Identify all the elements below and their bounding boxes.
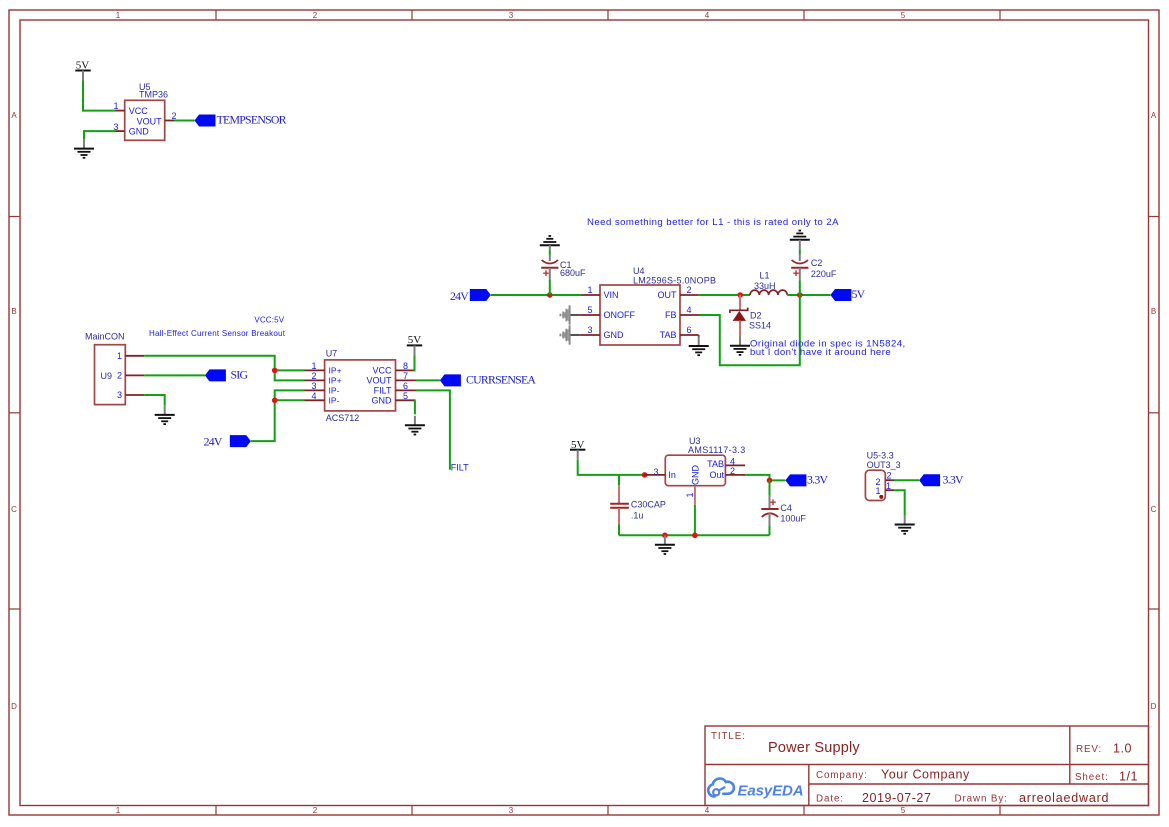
svg-text:A: A xyxy=(11,111,17,120)
svg-text:IP+: IP+ xyxy=(329,366,342,376)
ground left (GND U4) xyxy=(560,325,579,344)
svg-text:4: 4 xyxy=(705,11,710,20)
svg-text:TMP36: TMP36 xyxy=(139,90,168,100)
svg-text:Date:: Date: xyxy=(816,794,844,805)
junction node rail2 xyxy=(692,533,698,539)
inductor L1 xyxy=(750,271,787,296)
pin 5 U7 xyxy=(396,391,416,401)
pin 4 FB xyxy=(680,305,700,315)
svg-text:IP+: IP+ xyxy=(329,376,342,386)
title block xyxy=(705,726,1149,806)
svg-text:SS14: SS14 xyxy=(749,320,771,330)
junction node D2 xyxy=(737,292,743,298)
svg-text:Power Supply: Power Supply xyxy=(768,740,860,756)
svg-text:ACS712: ACS712 xyxy=(326,413,360,423)
pin 2 U7 xyxy=(305,371,325,381)
ground left (ONOFF) xyxy=(560,305,579,324)
svg-text:8: 8 xyxy=(403,361,408,371)
svg-text:5V: 5V xyxy=(852,287,866,301)
wire pin1 to ground xyxy=(894,490,905,515)
svg-text:U9: U9 xyxy=(101,371,113,381)
junction node C2 xyxy=(797,292,803,298)
svg-text:1: 1 xyxy=(886,481,891,491)
svg-text:4: 4 xyxy=(311,391,316,401)
svg-text:1/1: 1/1 xyxy=(1119,769,1138,783)
comment text diode xyxy=(750,339,906,359)
svg-text:4: 4 xyxy=(705,806,710,815)
ground above C1 xyxy=(540,236,560,251)
svg-text:D: D xyxy=(11,702,17,711)
svg-text:TAB: TAB xyxy=(660,330,677,340)
junction node rail1 xyxy=(662,533,668,539)
svg-text:3: 3 xyxy=(587,325,592,335)
svg-text:1: 1 xyxy=(116,806,121,815)
svg-text:FILT: FILT xyxy=(451,463,469,473)
svg-text:TAB: TAB xyxy=(707,459,724,469)
junction node IP- xyxy=(272,398,278,404)
svg-text:C30CAP: C30CAP xyxy=(631,500,666,510)
svg-text:FB: FB xyxy=(665,310,677,320)
svg-text:1: 1 xyxy=(117,351,122,361)
pin 2 OUT xyxy=(680,285,699,295)
pin 1 U5 xyxy=(113,101,124,111)
junction node C1 xyxy=(547,292,553,298)
svg-text:33uH: 33uH xyxy=(754,281,776,291)
power flag 5V (U5) xyxy=(75,60,90,81)
svg-text:2: 2 xyxy=(117,371,122,381)
connector U9 MainCON xyxy=(85,332,125,405)
svg-text:5: 5 xyxy=(901,806,906,815)
svg-text:1.0: 1.0 xyxy=(1113,742,1132,756)
svg-text:GND: GND xyxy=(604,330,625,340)
wire L1 to 5V flag xyxy=(787,294,830,296)
wire 24V to VIN xyxy=(491,294,581,296)
svg-text:5V: 5V xyxy=(408,334,422,346)
svg-text:Drawn By:: Drawn By: xyxy=(955,794,1008,805)
svg-text:Your Company: Your Company xyxy=(881,767,970,781)
wire ground rail U3 xyxy=(619,534,770,536)
connector U5-3.3 OUT3_3 xyxy=(865,451,900,501)
junction node In xyxy=(642,472,648,478)
svg-text:VOUT: VOUT xyxy=(137,116,163,126)
svg-text:3: 3 xyxy=(113,122,118,132)
pin 3 U5 xyxy=(113,122,124,132)
svg-text:3.3V: 3.3V xyxy=(807,472,828,486)
svg-text:REV:: REV: xyxy=(1076,744,1102,755)
wire U9 pin2 to SIG xyxy=(144,374,205,376)
svg-text:L1: L1 xyxy=(760,271,770,281)
svg-text:Out: Out xyxy=(709,470,724,480)
svg-text:2: 2 xyxy=(886,471,891,481)
wire FILT xyxy=(416,390,450,469)
wire VOUT to CURRSENSEA xyxy=(416,379,440,381)
capacitor C2 xyxy=(791,250,837,295)
svg-text:CURRSENSEA: CURRSENSEA xyxy=(466,372,536,386)
capacitor C30CAP xyxy=(610,475,666,535)
svg-text:24V: 24V xyxy=(204,434,223,448)
svg-text:Hall-Effect Current Sensor Bre: Hall-Effect Current Sensor Breakout xyxy=(149,329,286,338)
pin 1 VIN xyxy=(581,285,600,295)
power flag 5V (U3) xyxy=(570,439,585,460)
junction node IP+ xyxy=(272,368,278,374)
svg-text:2: 2 xyxy=(311,371,316,381)
svg-text:arreolaedward: arreolaedward xyxy=(1019,791,1109,805)
pin 1 U9 xyxy=(125,355,144,357)
svg-text:3: 3 xyxy=(509,11,514,20)
svg-text:VCC: VCC xyxy=(129,106,149,116)
svg-text:5: 5 xyxy=(403,391,408,401)
svg-text:B: B xyxy=(11,307,16,316)
svg-text:LM2596S-5.0NOPB: LM2596S-5.0NOPB xyxy=(633,276,716,286)
svg-text:2019-07-27: 2019-07-27 xyxy=(862,791,931,805)
svg-text:GND: GND xyxy=(129,127,150,137)
svg-text:A: A xyxy=(1151,111,1157,120)
svg-text:.1u: .1u xyxy=(631,511,644,521)
svg-text:U4: U4 xyxy=(633,266,645,276)
svg-text:GND: GND xyxy=(691,465,701,486)
svg-text:100uF: 100uF xyxy=(780,514,806,524)
pin 3 GND xyxy=(580,325,600,335)
pin 3 U7 xyxy=(305,381,325,391)
svg-text:1: 1 xyxy=(113,101,118,111)
net flag 5V (output) xyxy=(830,287,865,301)
junction node Out xyxy=(767,478,773,484)
pin 6 U7 xyxy=(396,381,416,391)
ground above C2 xyxy=(790,231,810,250)
wire 24V to IP- xyxy=(251,390,305,441)
svg-text:VOUT: VOUT xyxy=(366,376,392,386)
capacitor C1 xyxy=(541,251,586,296)
ground (U7) xyxy=(405,416,425,435)
wire 5V to In xyxy=(578,460,645,475)
net flag TEMPSENSOR xyxy=(195,112,287,126)
svg-text:IP-: IP- xyxy=(329,386,340,396)
svg-text:U7: U7 xyxy=(326,348,338,358)
svg-text:In: In xyxy=(668,470,676,480)
pin 4 U7 xyxy=(305,391,325,401)
svg-text:6: 6 xyxy=(686,325,691,335)
svg-text:TITLE:: TITLE: xyxy=(711,731,746,742)
wire GND U3 to rail xyxy=(694,505,696,536)
ground (U9) xyxy=(155,405,175,424)
svg-text:ONOFF: ONOFF xyxy=(604,310,636,320)
svg-text:5: 5 xyxy=(587,305,592,315)
svg-text:OUT3_3: OUT3_3 xyxy=(867,460,901,470)
pin 2 U5 xyxy=(165,111,177,121)
svg-text:1: 1 xyxy=(685,492,695,497)
ground (D2) xyxy=(730,336,750,355)
pin 2 Out xyxy=(725,466,745,476)
svg-text:5: 5 xyxy=(901,11,906,20)
svg-text:OUT: OUT xyxy=(658,290,678,300)
svg-text:GND: GND xyxy=(372,396,393,406)
wire 5V to U5 VCC xyxy=(83,81,115,111)
wire Out to 3.3V xyxy=(745,475,785,481)
svg-text:IP-: IP- xyxy=(329,396,340,406)
svg-text:C2: C2 xyxy=(811,258,823,268)
svg-text:3.3V: 3.3V xyxy=(943,472,964,486)
svg-text:C4: C4 xyxy=(780,503,792,513)
power flag 5V (U7) xyxy=(407,334,422,355)
svg-text:220uF: 220uF xyxy=(811,269,837,279)
svg-text:VCC: VCC xyxy=(372,366,392,376)
IC U4 LM2596S box xyxy=(600,266,716,345)
wire 5V to VCC U7 xyxy=(415,355,416,370)
IC U3 AMS1117 box xyxy=(665,436,745,486)
svg-text:3: 3 xyxy=(509,806,514,815)
pin 4 TAB xyxy=(725,456,745,466)
svg-text:1: 1 xyxy=(587,285,592,295)
svg-text:VCC:5V: VCC:5V xyxy=(254,316,284,325)
wire FB feedback xyxy=(700,295,800,365)
svg-text:Need something better for L1 -: Need something better for L1 - this is r… xyxy=(587,217,839,228)
svg-text:C: C xyxy=(1151,505,1157,514)
pin 7 U7 xyxy=(396,371,416,381)
net flag 24V (lower) xyxy=(204,434,251,448)
wire pin2 to 3.3V xyxy=(894,479,919,481)
svg-text:4: 4 xyxy=(730,456,735,466)
svg-text:MainCON: MainCON xyxy=(85,332,125,342)
svg-text:EasyEDA: EasyEDA xyxy=(738,782,804,799)
net flag SIG xyxy=(205,367,249,381)
pin 3 U9 xyxy=(125,394,144,396)
net flag 24V (main) xyxy=(450,289,491,303)
wire GND U7 to ground xyxy=(414,400,417,414)
capacitor C4 xyxy=(761,480,806,535)
wire OUT to D2 junction xyxy=(699,294,750,296)
diode D2 SS14 xyxy=(730,295,771,336)
net flag 3.3V (OUT) xyxy=(919,472,964,486)
svg-text:VIN: VIN xyxy=(604,290,619,300)
svg-text:680uF: 680uF xyxy=(560,268,586,278)
svg-text:3: 3 xyxy=(653,467,658,477)
pin 2 (U5-3.3) xyxy=(885,471,894,481)
svg-text:7: 7 xyxy=(403,371,408,381)
svg-text:24V: 24V xyxy=(450,289,469,303)
svg-text:D: D xyxy=(1151,702,1157,711)
svg-text:6: 6 xyxy=(403,381,408,391)
pin 8 U7 xyxy=(396,361,416,371)
svg-text:1: 1 xyxy=(875,486,880,496)
ground (TAB) xyxy=(689,335,709,355)
svg-text:1: 1 xyxy=(116,11,121,20)
svg-text:AMS1117-3.3: AMS1117-3.3 xyxy=(688,445,746,455)
svg-text:D2: D2 xyxy=(750,311,762,321)
svg-text:C: C xyxy=(11,505,17,514)
wire U9 pin3 to ground xyxy=(144,395,165,405)
svg-text:2: 2 xyxy=(686,285,691,295)
EasyEDA logo xyxy=(708,779,803,800)
wire U5 GND to ground xyxy=(84,131,115,139)
svg-text:B: B xyxy=(1151,307,1156,316)
svg-text:SIG: SIG xyxy=(231,367,249,381)
pin 6 TAB xyxy=(680,325,699,335)
svg-text:2: 2 xyxy=(730,466,735,476)
svg-text:3: 3 xyxy=(117,390,122,400)
pin 5 ONOFF xyxy=(580,305,600,315)
pin 1 (U5-3.3) xyxy=(885,481,894,491)
svg-text:FILT: FILT xyxy=(374,386,392,396)
svg-text:2: 2 xyxy=(313,11,318,20)
ground (U5) xyxy=(74,139,94,158)
wire branch IP- pin4 xyxy=(275,399,305,401)
net flag 3.3V (U3) xyxy=(785,472,828,486)
wire U9 pin1 to IP+ xyxy=(144,356,304,381)
svg-text:4: 4 xyxy=(686,305,691,315)
svg-text:3: 3 xyxy=(311,381,316,391)
wire U5 VOUT to TEMPSENSOR xyxy=(174,120,195,122)
svg-text:TEMPSENSOR: TEMPSENSOR xyxy=(217,112,287,126)
svg-text:Company:: Company: xyxy=(816,770,868,781)
IC U7 ACS712 box xyxy=(325,348,396,422)
pin 1 U7 xyxy=(305,361,325,371)
net flag CURRSENSEA xyxy=(440,372,537,386)
pin 1 GND (U3) xyxy=(685,486,695,505)
svg-text:2: 2 xyxy=(313,806,318,815)
title block text xyxy=(711,731,1138,805)
svg-text:1: 1 xyxy=(311,361,316,371)
svg-text:Sheet:: Sheet: xyxy=(1075,772,1109,783)
IC U5 TMP36 box xyxy=(125,82,168,140)
ground (U5-3.3) xyxy=(895,515,915,534)
pin 3 In xyxy=(645,467,666,477)
svg-text:but I don't have it around her: but I don't have it around here xyxy=(750,347,891,358)
ground (U3 rail) xyxy=(655,535,675,554)
wire branch IP+ pin1 xyxy=(275,369,305,371)
pin 2 U9 xyxy=(125,374,144,376)
